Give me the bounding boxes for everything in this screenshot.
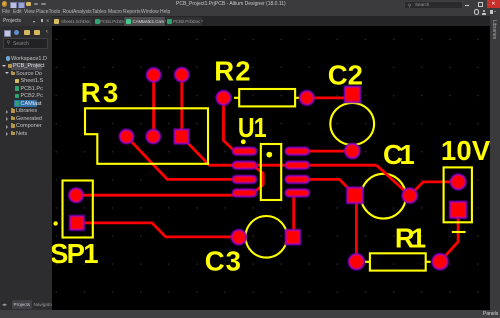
tab CAMtastic1.Cam (active) <box>124 17 165 26</box>
wire R3 pad1 to mid pad <box>152 75 155 137</box>
pad R1-2 <box>432 254 448 270</box>
wire SP1 round pad to U1 pin4 <box>76 194 243 197</box>
document tab row <box>0 16 500 26</box>
pad C2-1 (square) <box>345 87 361 103</box>
wire U1 pin8 to C2 bottom pad <box>297 150 352 153</box>
right docked strip <box>490 16 500 310</box>
status bar <box>0 310 500 318</box>
menu bar <box>0 8 500 16</box>
resistor R1 outline <box>370 253 426 270</box>
tab PCB2.PcbDoc <box>166 17 202 26</box>
svg-text:R1: R1 <box>395 223 426 254</box>
wire SP1 square pad to C3 left pad <box>77 223 239 237</box>
SP1 pin1 silk dot <box>53 221 57 225</box>
wire C1 right pad to 10V round pad <box>410 182 459 196</box>
wire U1 pin2 net diagonal into C1 right pad (over silk) <box>377 165 410 195</box>
capacitor C2 outline <box>330 103 374 145</box>
pad R2-2 <box>300 91 314 105</box>
pad SP1-2 (square) <box>70 216 84 230</box>
U1 pin1 silk dot <box>241 139 246 144</box>
pad C1-2 <box>402 188 417 203</box>
pad U1-5 <box>285 189 309 196</box>
svg-text:C3: C3 <box>205 245 242 276</box>
tab PCB1.PcbDoc <box>94 17 123 26</box>
pad R3-2 <box>175 68 189 82</box>
panel toolbar <box>4 30 11 37</box>
pad R1-1 <box>349 254 365 270</box>
pad U1-8 <box>285 148 309 155</box>
pad C3-1 <box>231 230 246 245</box>
pad U1-2 <box>233 162 257 169</box>
capacitor C1 outline <box>361 174 406 219</box>
pad C1-1 (square) <box>347 187 363 203</box>
left Projects panel <box>0 26 52 310</box>
pad U1-3 <box>233 176 257 183</box>
wire R3 round pad to U1 pin3 <box>127 137 250 180</box>
wire R2 left pad to U1 pin1 <box>224 98 236 152</box>
pad U1-7 <box>285 162 309 169</box>
resistor R2 outline <box>239 89 295 106</box>
pad R3-3 <box>120 130 134 144</box>
svg-text:R3: R3 <box>81 77 121 108</box>
op-amp U1 outline <box>261 144 281 200</box>
wire C1 square pad to R1 left pad <box>355 202 358 262</box>
svg-text:SP1: SP1 <box>52 238 98 269</box>
CAM canvas <box>52 26 490 310</box>
wire 10V square pad to R1 right pad <box>440 217 458 262</box>
wire U1 pin2-pin4 bypass <box>253 165 264 193</box>
speaker SP1 outline <box>63 181 93 238</box>
svg-text:10V: 10V <box>441 135 490 166</box>
tree <box>0 55 52 63</box>
svg-text:C1: C1 <box>383 139 414 170</box>
battery 10V outline <box>444 167 472 222</box>
pad U1-6 <box>285 176 309 183</box>
pad R3-4 <box>146 130 160 144</box>
pad R2-1 <box>216 91 230 105</box>
pad U1-4 <box>233 189 257 196</box>
pad R3-1 <box>147 68 161 82</box>
wire U1 pin6 to C1 square pad <box>297 179 355 195</box>
tab Sheet1.SchDoc <box>52 17 93 26</box>
svg-text:R2: R2 <box>214 56 252 87</box>
pad U1-1 <box>233 148 257 155</box>
resistor R3 outline <box>85 108 208 164</box>
pad SP1-1 <box>69 188 83 202</box>
bottom panel tabs <box>0 299 56 310</box>
pad C2-2 <box>345 144 360 159</box>
pad 10V-2 (square) <box>450 202 466 218</box>
pad 10V-1 <box>451 174 466 189</box>
title bar <box>0 0 500 8</box>
pads <box>69 68 466 270</box>
svg-text:U1: U1 <box>238 113 267 143</box>
wire R3 pad2 to square pad <box>180 75 183 137</box>
pad R3-5 (square) <box>174 129 188 143</box>
wire U1 pin5 to C3 square pad <box>292 194 295 233</box>
search box <box>3 38 48 49</box>
U1 body dot <box>266 152 272 158</box>
wire R2 right pad to C2 square pad <box>307 97 353 100</box>
wire R3 square pad to U1 pin2 to C1 right pad <box>182 137 377 166</box>
capacitor C3 outline <box>245 216 287 258</box>
pad C3-2 (square) <box>286 230 301 245</box>
